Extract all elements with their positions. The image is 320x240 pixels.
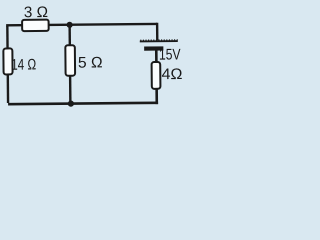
resistor 4 ohm (box on right wire): [152, 62, 161, 89]
svg-text:4Ω: 4Ω: [162, 66, 183, 83]
wire right lower (battery to 4 ohm to bottom): [155, 49, 157, 102]
resistor 14 ohm (box on left wire): [3, 48, 12, 74]
node junction bottom (dot): [68, 101, 74, 107]
resistor 3 ohm (box on top wire): [22, 20, 49, 31]
wire middle branch: [68, 25, 71, 104]
node junction top (dot): [66, 22, 72, 28]
svg-text:15V: 15V: [159, 46, 181, 63]
wire bottom: [8, 103, 158, 104]
wire left: [6, 26, 9, 103]
wire top: [7, 24, 157, 27]
svg-text:14 Ω: 14 Ω: [11, 56, 36, 73]
svg-text:3 Ω: 3 Ω: [24, 4, 48, 21]
resistor 5 ohm (box on middle branch): [65, 45, 75, 76]
wire right upper (to battery): [156, 23, 159, 41]
svg-text:5 Ω: 5 Ω: [78, 54, 103, 71]
battery B1 plate long (15 V): [140, 40, 178, 42]
battery B1 plate short thick: [144, 46, 163, 50]
